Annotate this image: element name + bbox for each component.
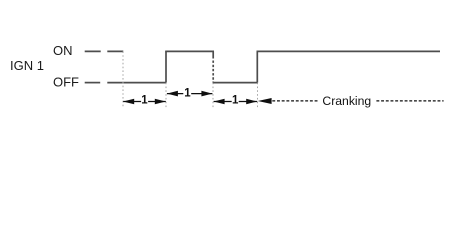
svg-text:1: 1 <box>232 95 239 107</box>
wire IGN1 final ON level <box>257 50 441 52</box>
dimension arrow interval C (1 s) <box>214 95 258 107</box>
svg-text:1: 1 <box>141 95 148 107</box>
dimension arrow interval A (1 s) <box>123 95 166 107</box>
svg-text:OFF: OFF <box>53 75 79 90</box>
wire ON-level lead-in dash 2 <box>107 50 123 52</box>
node gridline t2 <box>212 83 214 108</box>
dimension arrow Cranking (dashed, open ended) <box>258 94 444 108</box>
wire OFF-level lead-in dash <box>85 82 101 84</box>
wire OFF-level solid segment <box>107 82 166 84</box>
wire IGN1 rising edge 1 <box>165 51 167 82</box>
node gridline t3 <box>257 83 259 108</box>
wire ON-level lead-in dash 1 <box>85 50 101 52</box>
node gridline t1 <box>165 83 167 108</box>
node gridline t0 (dotted ON-to-OFF drop) <box>122 51 124 107</box>
dimension arrow interval B (1 s) <box>167 88 213 100</box>
svg-text:IGN 1: IGN 1 <box>10 58 44 73</box>
svg-text:Cranking: Cranking <box>322 94 371 108</box>
wire IGN1 OFF segment <box>213 82 257 84</box>
wire IGN1 ON pulse top <box>165 50 214 52</box>
wire IGN1 rising edge 2 <box>256 51 258 82</box>
wire IGN1 falling edge (solid top, dashed lower) <box>212 51 214 58</box>
svg-text:1: 1 <box>184 88 191 100</box>
svg-text:ON: ON <box>53 43 73 58</box>
